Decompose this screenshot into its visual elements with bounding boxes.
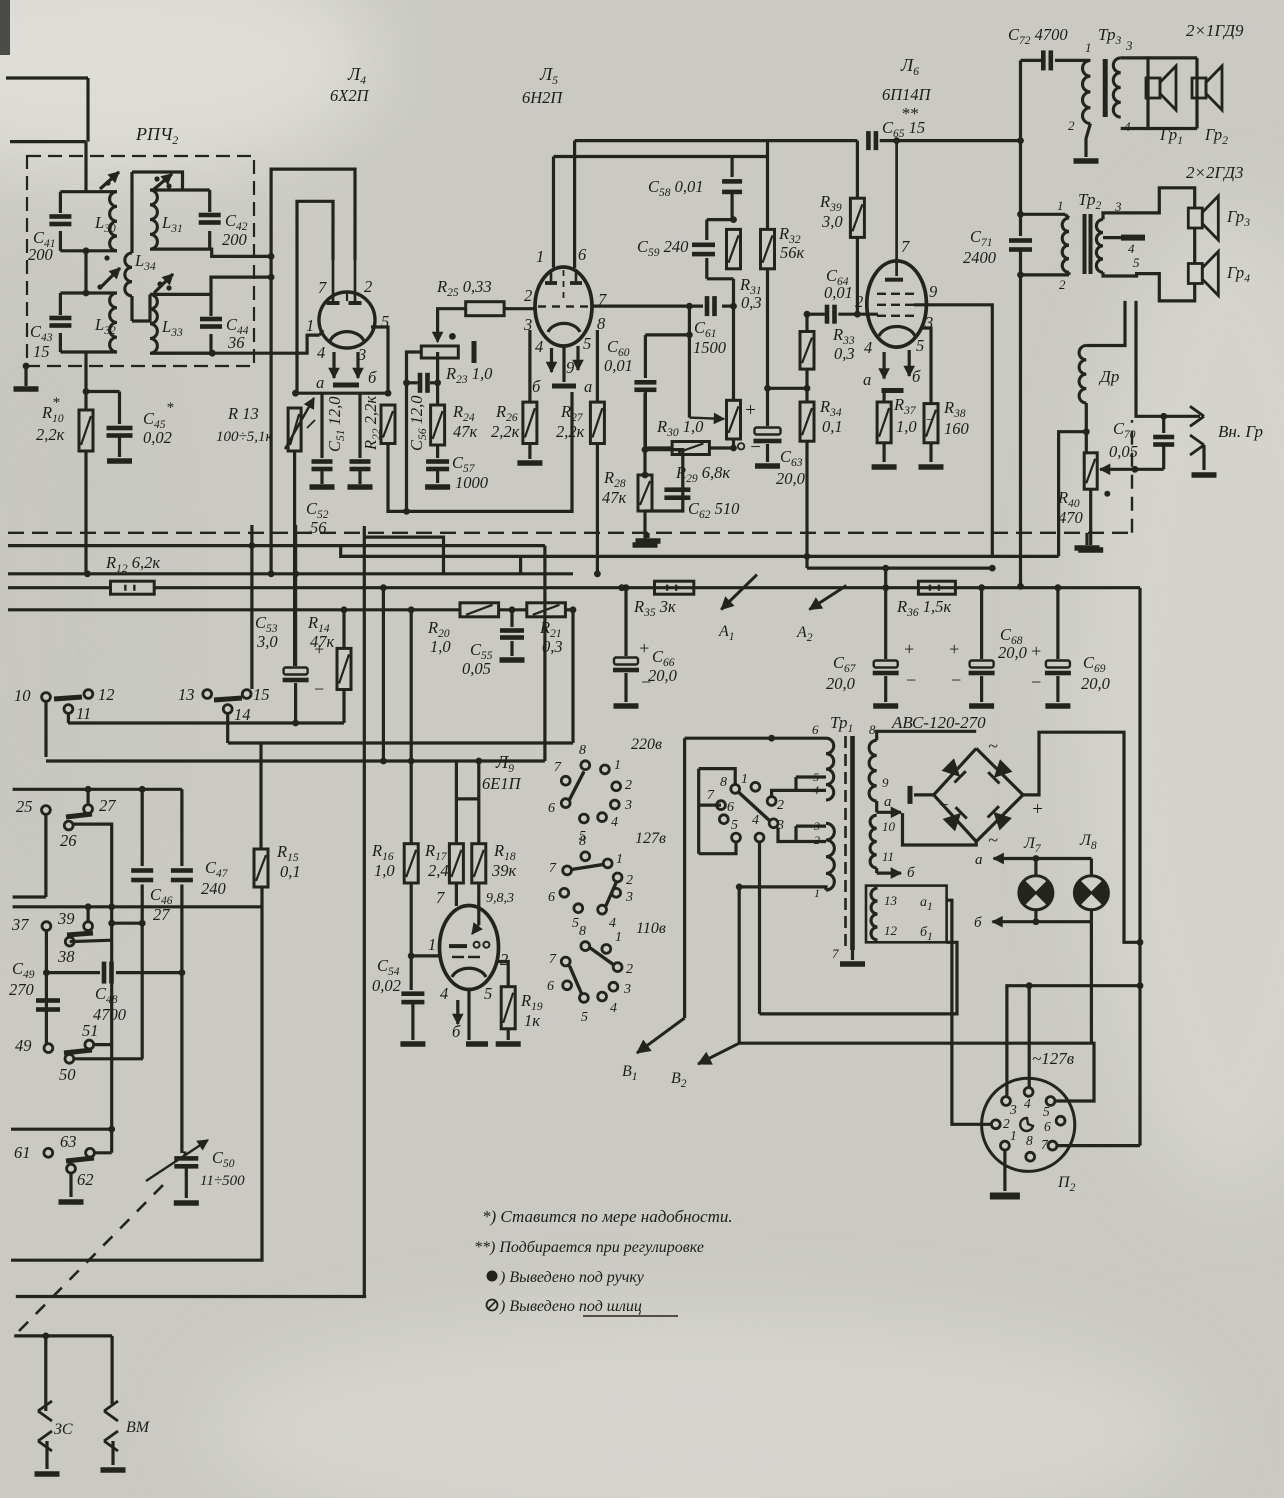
svg-text:38: 38 [57, 947, 75, 966]
svg-text:7: 7 [318, 278, 327, 297]
svg-text:R29 6,8к: R29 6,8к [675, 463, 730, 485]
speaker Gr2 [1192, 66, 1222, 110]
svg-text:1: 1 [615, 930, 622, 945]
svg-text:6Е1П: 6Е1П [482, 774, 522, 793]
ground C54 [400, 1041, 425, 1047]
contact bar 50-51 [64, 1050, 92, 1053]
label R22 rotated [361, 396, 383, 451]
svg-text:26: 26 [60, 831, 77, 850]
label C53 [255, 613, 278, 651]
wire R25 right to L5 [504, 307, 535, 310]
svg-text:1000: 1000 [455, 473, 489, 492]
svg-text:20,0: 20,0 [1081, 674, 1111, 693]
dashed chassis line [8, 532, 1130, 534]
wire R24 to C57 [436, 445, 439, 458]
label R13 [216, 404, 317, 445]
wire R16 bottom [408, 883, 415, 990]
svg-text:4: 4 [609, 916, 616, 931]
svg-text:8: 8 [869, 722, 876, 737]
svg-text:) Выведено под шлиц: ) Выведено под шлиц [499, 1298, 642, 1315]
capacitor C50 variable [174, 1153, 199, 1206]
label R21 [539, 618, 563, 656]
wire C70 top [1136, 301, 1200, 420]
svg-text:а: а [884, 794, 892, 810]
svg-text:5: 5 [583, 334, 591, 353]
wire rail to Tr2 [1017, 211, 1065, 218]
svg-text:5: 5 [813, 770, 819, 784]
label Gr3 [1226, 207, 1250, 229]
svg-text:ВМ: ВМ [126, 1419, 151, 1436]
label R34 [819, 397, 843, 436]
lamp L7 [1019, 859, 1053, 910]
label R28 [602, 468, 627, 507]
label L4 a b [316, 368, 377, 392]
label R31 [739, 275, 762, 312]
svg-text:3: 3 [776, 818, 784, 833]
wire node A [643, 394, 646, 475]
svg-text:8: 8 [579, 924, 586, 939]
svg-text:3: 3 [623, 982, 631, 997]
terminal 11 [54, 697, 91, 723]
label ZS [54, 1421, 73, 1438]
label C69 [1081, 653, 1111, 693]
wire C45 to ground [107, 436, 132, 464]
resistor R25 [466, 302, 504, 316]
label R12 [105, 553, 160, 575]
label C51 rotated [325, 396, 347, 452]
label Vn.Gr [1218, 422, 1263, 441]
svg-text:С56 12,0: С56 12,0 [407, 395, 429, 451]
bridge marks [938, 736, 1044, 850]
svg-text:R30 1,0: R30 1,0 [656, 417, 704, 439]
svg-text:Вн. Гр: Вн. Гр [1218, 422, 1263, 441]
svg-text:R23 1,0: R23 1,0 [445, 364, 493, 386]
svg-text:1,0: 1,0 [430, 637, 451, 656]
transformer Tr3 secondary [1113, 58, 1120, 117]
footnote 2 [474, 1239, 704, 1256]
terminal 14 [214, 698, 251, 743]
arrow into potentiometer [689, 414, 724, 424]
svg-text:6: 6 [727, 800, 734, 815]
svg-text:220в: 220в [631, 736, 662, 753]
label C57 [452, 453, 489, 492]
inductor L30 [110, 192, 117, 251]
capacitor C57 [426, 459, 449, 471]
capacitor C41 [49, 214, 71, 226]
terminal 37 [11, 915, 51, 1044]
svg-text:1: 1 [616, 852, 623, 867]
wire C70 bottom arrow [1100, 464, 1164, 474]
svg-text:0,02: 0,02 [143, 428, 172, 447]
wire L4 pin5 to R22 [371, 327, 388, 393]
contact bar 62-63 [66, 1158, 94, 1161]
wire 1260 line [11, 887, 262, 1260]
switch contact S2 [153, 174, 172, 190]
lamp wire b [974, 910, 1091, 931]
svg-text:2400: 2400 [963, 248, 997, 267]
resistor R14 [337, 606, 351, 723]
svg-text:5: 5 [731, 818, 738, 833]
tube L6 cathode bar [882, 388, 904, 393]
terminal 13 [178, 685, 212, 704]
resistor R34 [800, 402, 814, 441]
svg-text:4: 4 [440, 984, 448, 1003]
resistor R32 [761, 141, 775, 389]
wire L9 pin1 [411, 954, 440, 957]
label C50 [200, 1148, 245, 1189]
transformer Tr1 sec 10-11 [870, 815, 895, 868]
svg-text:~: ~ [988, 736, 998, 756]
transformer Tr3 core [1103, 59, 1108, 117]
wire pin7 feed [1057, 1144, 1140, 1147]
svg-text:14: 14 [234, 705, 251, 724]
label R39 [819, 192, 843, 231]
svg-text:*: * [166, 400, 174, 416]
svg-text:13: 13 [178, 685, 195, 704]
svg-text:−: − [905, 670, 917, 690]
svg-text:4: 4 [813, 783, 819, 797]
label tube L9 [482, 752, 522, 793]
wire L30-L32 center [83, 247, 90, 296]
wire mains left frame [683, 738, 686, 1018]
wire 789 line [13, 786, 182, 793]
svg-text:4: 4 [1024, 1096, 1031, 1111]
svg-text:5: 5 [1133, 255, 1140, 270]
svg-text:200: 200 [28, 245, 54, 264]
resistor R28 [638, 475, 652, 511]
wire R23 left [407, 352, 422, 383]
label C42 [222, 211, 248, 249]
wire 1296 line [16, 1295, 366, 1298]
svg-text:50: 50 [59, 1065, 76, 1084]
svg-text:62: 62 [77, 1170, 94, 1189]
svg-text:С51 12,0: С51 12,0 [325, 396, 347, 452]
label R14 [307, 613, 335, 651]
tap 4 bar [1103, 235, 1145, 270]
switch group 110V [547, 924, 633, 1025]
svg-text:6: 6 [548, 890, 555, 905]
svg-text:1,0: 1,0 [896, 417, 917, 436]
svg-text:8: 8 [1026, 1133, 1033, 1148]
svg-text:а: а [584, 377, 592, 396]
svg-text:1: 1 [1057, 198, 1064, 213]
dashed chassis corner [1131, 420, 1133, 533]
tap a arrow [877, 794, 901, 817]
svg-text:б: б [907, 865, 915, 881]
tank L33 frame [150, 294, 211, 353]
label tube L6 [882, 55, 932, 104]
svg-text:2: 2 [855, 292, 863, 311]
wire L5 pin1 riser [552, 157, 555, 268]
wire bus1 corner down [543, 546, 546, 761]
svg-text:R12 6,2к: R12 6,2к [105, 553, 160, 575]
socket P2 key [1020, 1118, 1033, 1131]
label R20 [427, 618, 451, 656]
svg-text:2×2ГД3: 2×2ГД3 [1186, 163, 1243, 182]
svg-text:+: + [903, 639, 915, 659]
jack ZS contact 1 [38, 1336, 52, 1421]
svg-text:7: 7 [549, 952, 557, 967]
svg-text:20,0: 20,0 [776, 469, 806, 488]
svg-text:12: 12 [98, 685, 115, 704]
tube L6 grid dashes [877, 294, 914, 316]
label Gr4 [1226, 263, 1250, 285]
tube L9 pin labels [428, 888, 514, 1003]
svg-text:7: 7 [554, 760, 562, 775]
label C43 [30, 322, 53, 361]
contact bar 26-27 [66, 814, 92, 817]
svg-text:9: 9 [929, 282, 937, 301]
wire Tr2 sec top to Gr3 [1103, 188, 1195, 220]
wire R23-R24 vertical [434, 352, 441, 405]
label L7 [1023, 835, 1042, 855]
svg-text:0,3: 0,3 [741, 293, 762, 312]
wire R17 to tube pin7 [455, 883, 458, 906]
label R40 [1057, 488, 1110, 527]
capacitor C47 [171, 789, 193, 1153]
svg-text:2: 2 [1059, 277, 1066, 292]
wire pot bottom to R30 [730, 439, 737, 451]
label C66 polarity [638, 638, 652, 692]
tube L6 pin labels [855, 237, 937, 357]
tank L31 frame [150, 190, 210, 249]
resistor R21 [527, 603, 566, 617]
svg-text:а: а [316, 373, 324, 392]
dashed block RPCh2 [27, 156, 254, 366]
svg-text:3: 3 [1009, 1102, 1017, 1117]
resistor R27 [590, 330, 604, 444]
ground chassis left [636, 533, 661, 544]
resistor R35 [618, 581, 693, 594]
svg-text:+: + [744, 400, 757, 421]
node A R28 [642, 446, 649, 453]
label C70 [1109, 419, 1138, 461]
ground left of block [14, 363, 39, 392]
wire V2 drop [570, 606, 577, 743]
resistor R26 [523, 330, 537, 444]
wire L9 pin5 ground [466, 990, 488, 1047]
wire antenna to tank [84, 142, 87, 192]
label R33 [832, 325, 855, 363]
label C47 [201, 858, 229, 898]
svg-text:3,0: 3,0 [821, 212, 843, 231]
arrow R23 tap [433, 316, 443, 342]
diode D2 [988, 760, 1011, 783]
bus line 1 [8, 544, 545, 547]
svg-text:2: 2 [1068, 118, 1075, 133]
choke Dr [1079, 301, 1125, 403]
wire L31 exit to AGC line [210, 249, 271, 256]
electrolytic C68 [969, 584, 995, 708]
label R29 [675, 463, 730, 485]
svg-text:С65 15: С65 15 [882, 118, 925, 140]
svg-text:б: б [974, 915, 982, 931]
label R25 [436, 277, 492, 299]
footnote 1 [482, 1207, 733, 1226]
wire pin3 feed [1007, 982, 1144, 1096]
resistor R30 [645, 442, 734, 455]
terminal 25 [13, 797, 51, 897]
capacitor C53 string [283, 525, 309, 723]
resistor R12 [111, 581, 155, 594]
svg-text:27: 27 [153, 905, 170, 924]
label R27 [556, 402, 585, 441]
svg-text:4: 4 [610, 1001, 617, 1016]
wire L9 pin2 to R19 [497, 962, 508, 987]
svg-text:39к: 39к [491, 861, 517, 880]
terminal 39 [57, 909, 93, 930]
label C72 [1008, 25, 1068, 47]
resistor R22 [381, 405, 395, 444]
svg-text:6П14П: 6П14П [882, 85, 932, 104]
label C44 [226, 315, 249, 352]
arrow V2 [671, 1043, 739, 1090]
wire bridge left terminal [908, 786, 934, 804]
wire L33 bottom to tube pin1 [150, 335, 320, 357]
tube L9 cathode [452, 968, 486, 977]
label C64 [824, 266, 853, 302]
diode D4 [988, 806, 1011, 829]
capacitor C42 [199, 213, 221, 225]
svg-text:56к: 56к [780, 243, 805, 262]
lamp wire a [975, 852, 1091, 868]
capacitor C52 [350, 393, 371, 471]
svg-text:61: 61 [14, 1143, 31, 1162]
svg-text:27: 27 [99, 796, 116, 815]
wire Tr1 top [685, 735, 826, 742]
tube L9 envelope [440, 906, 499, 990]
wire selector frame [699, 769, 736, 854]
resistor R37 [877, 393, 891, 443]
tube L6 plate [885, 141, 903, 282]
svg-text:R 13: R 13 [227, 404, 259, 423]
tap 3 2 [778, 819, 826, 847]
label 127V socket [1032, 1049, 1075, 1068]
ground C57 [425, 469, 450, 490]
socket P2 pins [991, 1088, 1065, 1162]
svg-text:1к: 1к [524, 1011, 540, 1030]
wire bridge bottom [903, 813, 977, 845]
label R10 [36, 395, 65, 444]
tank L32 frame [60, 293, 117, 352]
label tube L5 [522, 64, 563, 107]
terminal 38 [57, 937, 75, 966]
svg-text:4: 4 [317, 343, 325, 362]
wire selector 4 drop [758, 842, 761, 1014]
svg-text:1: 1 [614, 758, 621, 773]
svg-text:2: 2 [1003, 1116, 1010, 1131]
label C63 [776, 447, 806, 488]
lamp L8 [1074, 859, 1108, 910]
label C65 [882, 104, 925, 140]
svg-text:2,2к: 2,2к [36, 425, 65, 444]
svg-text:2: 2 [814, 833, 820, 847]
resistor R23 [421, 346, 458, 358]
wire 112 vertical [110, 1045, 113, 1153]
ground R37 [872, 443, 897, 470]
wire 39 riser [85, 903, 92, 921]
svg-text:11: 11 [76, 704, 91, 723]
label C48 [93, 984, 127, 1024]
svg-text:5: 5 [916, 336, 924, 355]
wire R32-C63 node [764, 385, 807, 392]
svg-text:160: 160 [944, 419, 970, 438]
svg-text:9,8,3: 9,8,3 [486, 891, 514, 906]
svg-text:−: − [925, 413, 934, 428]
svg-text:а: а [975, 852, 983, 868]
label VM [126, 1419, 151, 1436]
svg-text:8: 8 [579, 834, 586, 849]
svg-text:56: 56 [310, 518, 327, 537]
resistor R36 [918, 581, 955, 594]
svg-text:270: 270 [9, 980, 35, 999]
terminal 51 [82, 1021, 112, 1049]
svg-text:15: 15 [33, 342, 50, 361]
wire C60 branch [645, 333, 689, 336]
svg-text:47к: 47к [310, 632, 335, 651]
capacitor C61 [705, 296, 717, 316]
svg-text:15: 15 [253, 685, 270, 704]
tube L4 cathode ground bar [333, 383, 359, 388]
label Tr3 [1098, 25, 1133, 53]
wire R33 string [800, 314, 814, 402]
wire L4 pin7 top [297, 201, 333, 393]
footnote 4 [487, 1298, 679, 1316]
svg-text:б: б [368, 368, 377, 387]
wire pin4 feed [1026, 982, 1033, 1087]
label L31 [161, 213, 183, 235]
svg-text:20,0: 20,0 [648, 666, 678, 685]
label R23 [445, 364, 493, 386]
wire R40 bypass loop [1059, 432, 1087, 557]
svg-text:*: * [52, 395, 60, 411]
arrow A1 [718, 575, 757, 643]
label R16 [371, 841, 395, 880]
label L30 [94, 213, 116, 235]
tube L5 filament arrows [547, 346, 584, 372]
wire 1129 line [11, 1126, 115, 1133]
label R38 [943, 398, 970, 438]
svg-text:1: 1 [1010, 1128, 1017, 1143]
svg-text:С62 510: С62 510 [688, 499, 740, 521]
label R26 [491, 402, 520, 441]
transformer Tr2 secondary [1096, 219, 1103, 272]
label ABC [891, 713, 986, 732]
wire Tr1 primary bottom [736, 884, 826, 891]
socket P2 numbers [1003, 1096, 1051, 1152]
svg-text:39: 39 [57, 909, 75, 928]
label C56 rotated [407, 395, 429, 451]
footnote 3 [487, 1269, 645, 1286]
wire Gr3-Gr4 [1193, 228, 1196, 263]
label R18 [491, 841, 517, 880]
label R24 [452, 402, 478, 441]
wire long 906 line [13, 905, 261, 908]
wire C45 link [86, 392, 120, 425]
bus line 4 [8, 608, 573, 611]
tube L4 plates [327, 260, 362, 305]
wire Tr3 primary bottom [1068, 118, 1099, 164]
label 2x1GD9 [1186, 21, 1244, 40]
svg-text:R25 0,33: R25 0,33 [436, 277, 492, 299]
svg-text:1: 1 [428, 935, 436, 954]
wire L1 link [228, 741, 573, 744]
diode D3 [944, 807, 967, 830]
svg-text:0,05: 0,05 [462, 659, 491, 678]
wire L4 pin1 [320, 330, 324, 335]
wire L33 exit [211, 277, 271, 294]
svg-text:R36 1,5к: R36 1,5к [896, 597, 951, 619]
